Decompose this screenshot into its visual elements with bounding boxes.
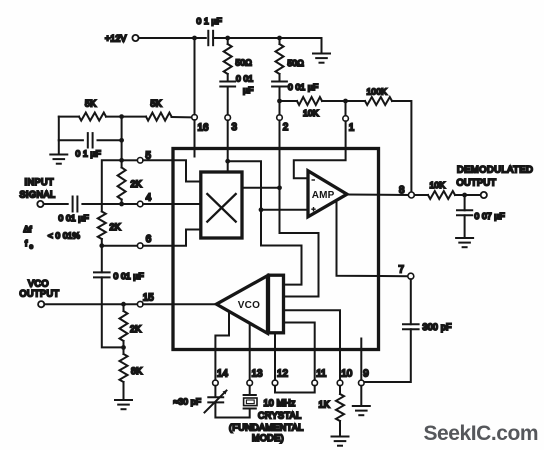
- wire +12V rail: [139, 37, 206, 39]
- wire input cap to pin 4: [82, 203, 121, 205]
- VCO output stage rectangle: [269, 275, 284, 333]
- resistor 5K no.2: [146, 113, 172, 121]
- svg-text:6: 6: [146, 234, 152, 245]
- wire pin 16 stub inside IC: [194, 120, 196, 156]
- svg-text:0 01 µF: 0 01 µF: [59, 213, 89, 223]
- terminal input signal: [37, 201, 43, 207]
- node 50ohm no.1 tap: [225, 36, 230, 41]
- terminal VCO output: [38, 301, 44, 307]
- node pin 1 junction: [343, 99, 348, 104]
- capacitor 0.01 uF (pin 3): [220, 81, 235, 83]
- wire pin 2 down into IC: [279, 120, 281, 187]
- svg-text:1K: 1K: [319, 400, 330, 410]
- crystal 10 MHz: [249, 386, 251, 395]
- svg-text:OUTPUT: OUTPUT: [20, 289, 60, 299]
- svg-text:≈30 pF: ≈30 pF: [174, 397, 202, 407]
- svg-text:300 pF: 300 pF: [423, 322, 453, 332]
- svg-text:100K: 100K: [367, 87, 388, 97]
- pin 2: [277, 115, 283, 121]
- resistor 1K (pin 10): [339, 386, 341, 394]
- pin 4: [122, 203, 138, 205]
- wire between 5K resistors: [106, 116, 146, 118]
- wire divider vertical pins 5-4: [121, 117, 123, 168]
- pin 6: [102, 245, 138, 247]
- svg-text:OUTPUT: OUTPUT: [457, 178, 497, 188]
- svg-text:0 01: 0 01: [236, 74, 253, 84]
- svg-text:7: 7: [399, 265, 404, 276]
- node pin 4 junction: [119, 202, 124, 207]
- wire pin 6 into IC (mixer): [143, 230, 201, 246]
- svg-text:11: 11: [316, 369, 326, 380]
- wire AMP output to pin 8: [347, 194, 408, 197]
- wire VCO bottom edge to pin 14 (jog): [215, 312, 229, 380]
- node mixer output / pin 2 junction: [277, 185, 282, 190]
- resistor 100K feedback: [346, 100, 366, 102]
- svg-text:o: o: [30, 244, 34, 251]
- svg-text:0 01 µF: 0 01 µF: [288, 82, 318, 92]
- svg-text:< 0 01%: < 0 01%: [48, 231, 80, 241]
- node output cap junction: [462, 193, 467, 198]
- svg-text:SeekIC.com: SeekIC.com: [424, 422, 539, 445]
- pin 12: [272, 380, 278, 386]
- wire pin 3 down to mixer top: [227, 120, 229, 172]
- node 2K/8K junction: [121, 345, 126, 350]
- svg-text:MODE): MODE): [252, 433, 284, 443]
- svg-text:15: 15: [143, 293, 154, 304]
- svg-text:VCO: VCO: [28, 279, 49, 289]
- trimmer capacitor ~30 pF: [214, 386, 216, 397]
- svg-text:AMP: AMP: [312, 190, 335, 201]
- wire VCO rect bottom to pin 12: [274, 333, 276, 380]
- node pin 5 junction: [119, 158, 124, 163]
- svg-text:0 1 µF: 0 1 µF: [76, 149, 101, 159]
- svg-text:12: 12: [277, 369, 288, 380]
- pin 13: [247, 380, 253, 386]
- svg-text:CRYSTAL: CRYSTAL: [258, 411, 301, 421]
- op-amp U1 AMP triangle: [308, 171, 347, 217]
- pin 10: [337, 380, 343, 386]
- resistor 8K: [120, 354, 128, 382]
- capacitor 0.01 uF (pin 6 to VCO line): [101, 246, 103, 273]
- capacitor 0.07 uF output filter: [464, 195, 466, 210]
- capacitor 0.01 uF (pin 2): [272, 81, 287, 83]
- pin 11: [312, 380, 318, 386]
- wire junction to AMP + input: [261, 209, 307, 211]
- svg-text:1: 1: [349, 123, 354, 134]
- resistor 2K (pins 5-6 leg): [98, 212, 106, 240]
- node mixer top junction: [225, 159, 230, 164]
- wire pin 4 into IC (mixer): [143, 203, 201, 205]
- svg-text:µF: µF: [243, 85, 254, 95]
- svg-text:INPUT: INPUT: [25, 177, 55, 187]
- wire pin 1 hook to AMP - input: [294, 121, 346, 178]
- ground pin 9: [360, 386, 362, 405]
- op-amp minus input mark: [312, 179, 316, 181]
- wire rail to ground corner: [213, 38, 321, 53]
- pin 14: [213, 380, 219, 386]
- svg-text:2K: 2K: [110, 222, 121, 232]
- wire 50ohm1 to cap: [227, 38, 229, 44]
- svg-text:8: 8: [399, 185, 405, 196]
- wire cap down across VCO line to 2K bottom: [102, 277, 124, 347]
- node AMP+ / VCO input junction: [259, 207, 264, 212]
- trimmer arrow: [205, 391, 227, 413]
- svg-text:13: 13: [252, 369, 263, 380]
- wire pin 5 into IC: [143, 160, 201, 181]
- svg-text:10 MHz: 10 MHz: [264, 398, 296, 408]
- ground top-right: [313, 53, 330, 55]
- node pin2/10K junction: [277, 99, 282, 104]
- pin 1: [345, 101, 347, 116]
- terminal demodulated output: [481, 192, 487, 198]
- svg-text:3: 3: [232, 122, 238, 133]
- svg-text:VCO: VCO: [238, 300, 260, 311]
- wire mixer-top branch to AMP+ node: [228, 161, 261, 210]
- wire 100K to pin 8: [392, 101, 411, 192]
- wire 5K to pin 16: [172, 116, 192, 118]
- pin 5: [124, 159, 137, 161]
- terminal +12V supply: [132, 35, 138, 41]
- svg-text:2: 2: [283, 122, 288, 133]
- svg-text:0 07 µF: 0 07 µF: [475, 211, 505, 221]
- node cap/divider junction: [119, 138, 124, 143]
- resistor 2K (VCO divider): [123, 304, 125, 311]
- wire 50ohm2 to cap: [279, 38, 281, 44]
- ground left (5K network): [58, 140, 60, 153]
- svg-text:10K: 10K: [303, 108, 319, 118]
- node supply/pin16 junction: [192, 36, 197, 41]
- pin 3: [225, 115, 231, 121]
- svg-text:16: 16: [198, 123, 209, 134]
- VCO triangle: [216, 276, 267, 334]
- svg-text:0 01 µF: 0 01 µF: [114, 271, 144, 281]
- mixer (phase comparator) box: [201, 172, 242, 238]
- ground below 8K: [123, 382, 125, 399]
- resistor 50 ohm no.1: [224, 44, 232, 74]
- svg-text:14: 14: [217, 369, 228, 380]
- svg-text:2K: 2K: [130, 324, 141, 334]
- svg-text:10K: 10K: [430, 180, 446, 190]
- wire pin 2 snake to VCO input B: [280, 188, 319, 297]
- capacitor 0.1 uF supply coupling: [207, 31, 209, 45]
- capacitor 300 pF (pin 7): [410, 279, 412, 324]
- pin 16: [192, 115, 198, 121]
- svg-text:4: 4: [146, 193, 152, 204]
- svg-text:SIGNAL: SIGNAL: [20, 190, 56, 200]
- wire VCO output line: [44, 303, 137, 305]
- ground below 0.07 uF: [464, 215, 466, 237]
- svg-text:10: 10: [341, 369, 352, 380]
- capacitor 0.1 uF (5K bypass): [58, 117, 60, 141]
- node 2K tap on VCO line: [121, 302, 126, 307]
- svg-text:(FUNDAMENTAL: (FUNDAMENTAL: [229, 423, 304, 433]
- pin 15: [137, 301, 143, 307]
- resistor 5K no.1: [59, 116, 79, 118]
- svg-text:50Ω: 50Ω: [236, 58, 252, 68]
- resistor 10K output: [414, 194, 428, 196]
- svg-text:8K: 8K: [131, 366, 142, 376]
- svg-text:Δf: Δf: [24, 224, 33, 234]
- svg-text:50Ω: 50Ω: [288, 58, 304, 68]
- wire mixer right output: [242, 187, 279, 189]
- capacitor 0.01 uF input coupling: [44, 203, 68, 205]
- wire 300 pF down to pin 9 line: [364, 329, 411, 382]
- wire pin 9 stub inside IC: [360, 339, 362, 380]
- wire supply rail down to pin 16: [194, 38, 196, 115]
- wire junction down to VCO input A: [261, 210, 302, 285]
- pin 7: [408, 273, 414, 279]
- wire pin5 junction to left leg: [102, 160, 122, 211]
- wire cap to pin 2: [279, 87, 281, 115]
- pin 9: [359, 380, 365, 386]
- resistor 10K (pins 2-1): [280, 100, 298, 102]
- svg-text:9: 9: [363, 369, 368, 380]
- wire AMP bottom to pin 7: [337, 201, 408, 277]
- resistor 50 ohm no.2: [276, 44, 284, 74]
- svg-text:0 1 µF: 0 1 µF: [197, 16, 222, 26]
- ground below 1K: [339, 421, 341, 436]
- wire VCO bottom edge to pin 13: [249, 323, 251, 380]
- wire trimmer to crystal bottom loop: [215, 402, 249, 417]
- svg-text:5K: 5K: [85, 99, 96, 109]
- mixer X symbol: [207, 194, 235, 222]
- op-amp plus input mark: [311, 207, 315, 211]
- resistor 2K (pins 5-4): [118, 168, 126, 200]
- svg-text:+12V: +12V: [105, 34, 127, 44]
- pin 8: [408, 192, 414, 198]
- svg-text:5K: 5K: [151, 99, 162, 109]
- svg-text:2K: 2K: [131, 179, 142, 189]
- wire cap to pin 3: [227, 87, 229, 115]
- node pin 6 junction: [99, 243, 104, 248]
- IC block outline: [173, 149, 379, 350]
- svg-text:DEMODULATED: DEMODULATED: [457, 165, 533, 175]
- wire strap pins 12-11: [275, 386, 315, 393]
- wire VCO rect stub D to pin 11: [284, 323, 315, 380]
- wire VCO rect stub C to pin 10: [284, 310, 340, 380]
- wire pin 15 into IC (VCO apex): [143, 303, 216, 305]
- node 50ohm no.2 tap: [277, 36, 282, 41]
- node 5K junction: [119, 114, 124, 119]
